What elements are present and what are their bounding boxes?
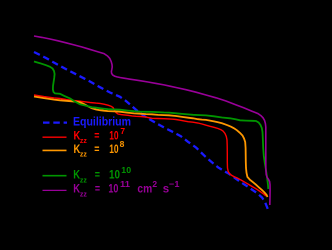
legend row 4: green line sample (43, 175, 67, 177)
legend row 2: red line sample (43, 136, 67, 138)
curve equilibrium (blue dashed) (34, 52, 269, 212)
legend row 5: purple line sample (43, 189, 67, 191)
curve Kzz=1e7 (red) (34, 95, 266, 196)
curve Kzz=1e8 (orange) (34, 97, 268, 198)
legend row 3: orange line sample (43, 149, 67, 151)
curve Kzz=1e11 (purple) (34, 36, 270, 205)
legend row 1: equilibrium dashed sample (43, 121, 67, 123)
curve Kzz=1e10 (green) (34, 62, 268, 190)
